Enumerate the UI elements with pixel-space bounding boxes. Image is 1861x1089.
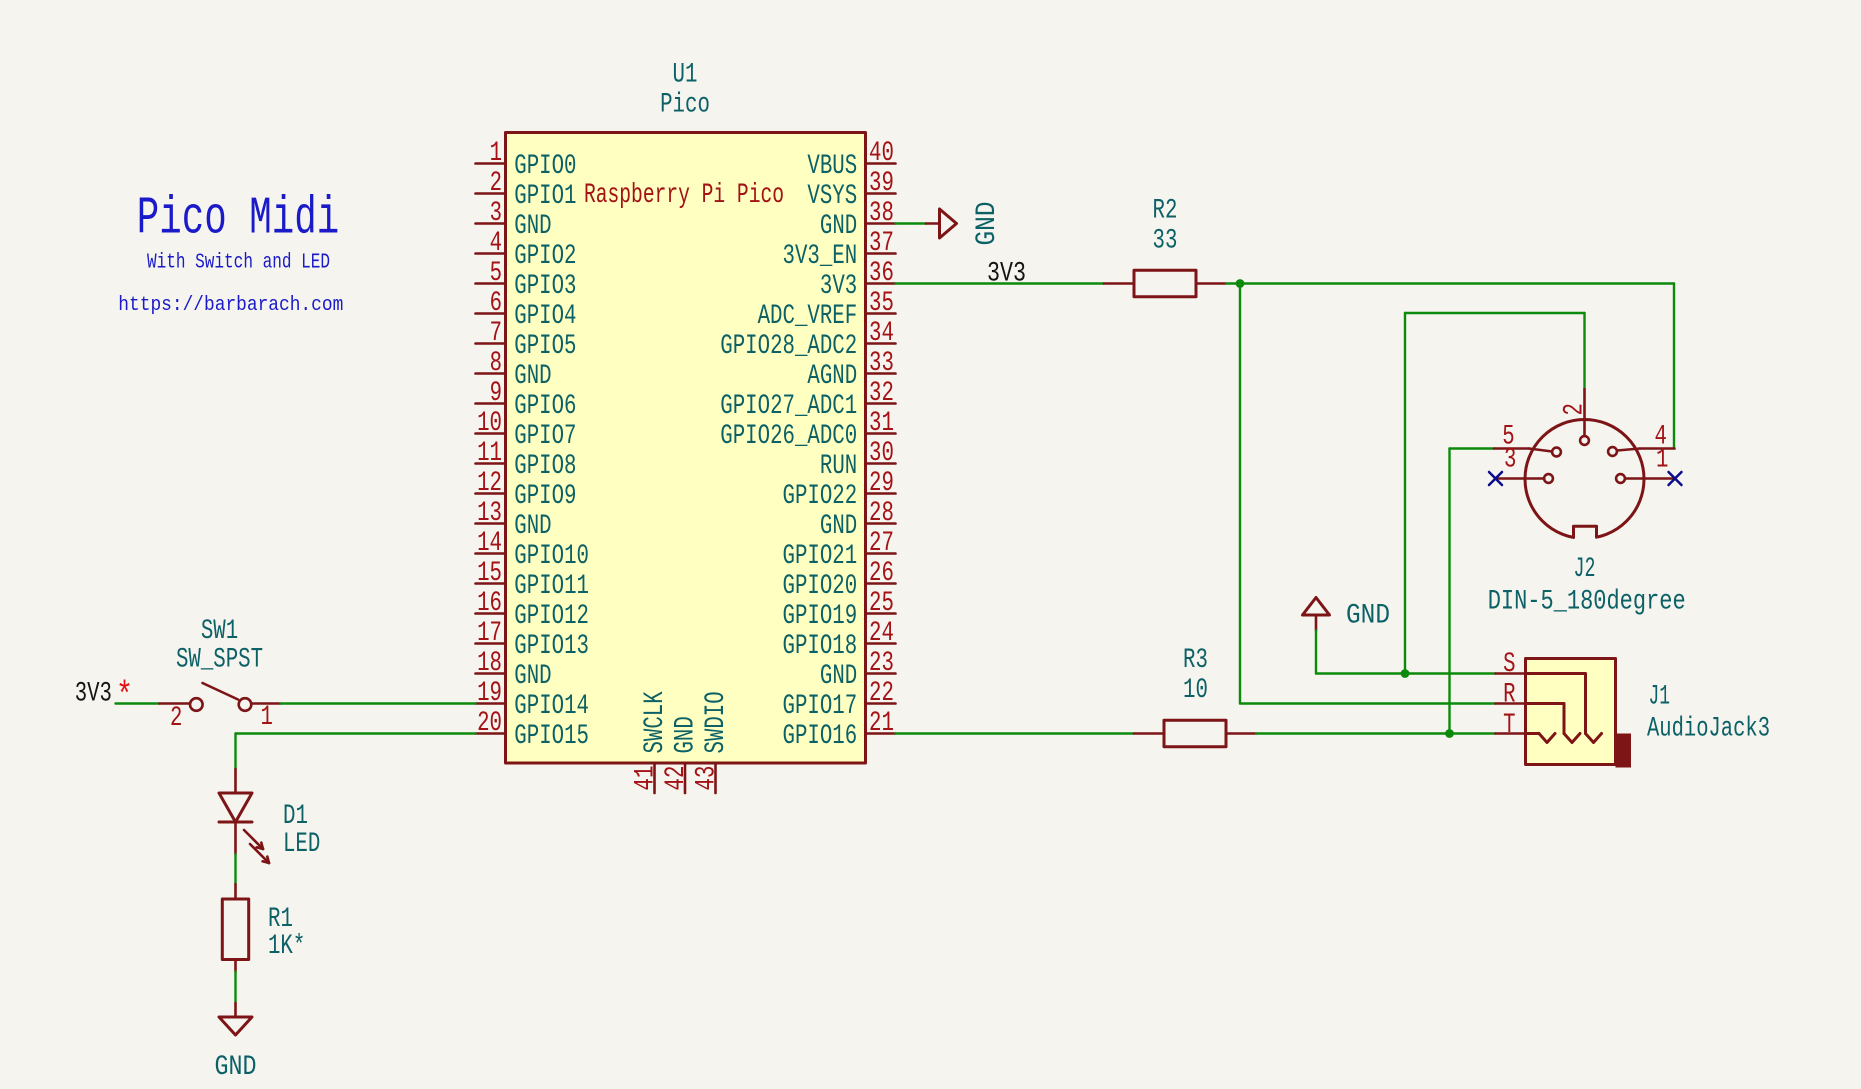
U1 pin 32 GPIO27_ADC1 (right) <box>720 378 895 422</box>
svg-text:J2: J2 <box>1574 554 1596 585</box>
svg-text:3: 3 <box>490 198 502 229</box>
svg-text:2: 2 <box>170 703 182 734</box>
svg-text:ADC_VREF: ADC_VREF <box>758 301 858 332</box>
wire LED to R1 <box>234 854 236 884</box>
svg-text:GND: GND <box>820 661 857 692</box>
svg-text:34: 34 <box>869 318 894 349</box>
svg-text:U1: U1 <box>673 60 698 91</box>
wire 3V3 label to SW1 pin2 <box>116 702 160 704</box>
svg-text:20: 20 <box>477 708 502 739</box>
junction at R2 output <box>1236 279 1245 288</box>
resistor R2 <box>1104 270 1226 296</box>
U1 pin 19 GPIO14 (left) <box>476 678 590 722</box>
wire pin38 to GND flag <box>896 222 927 224</box>
wire junction up to DIN pin5 <box>1450 449 1495 734</box>
svg-text:S: S <box>1503 649 1515 680</box>
svg-text:40: 40 <box>869 138 894 169</box>
svg-text:GND: GND <box>671 716 702 753</box>
svg-text:GPIO15: GPIO15 <box>514 721 589 752</box>
U1 pin 24 GPIO18 (right) <box>783 618 896 662</box>
svg-text:GPIO19: GPIO19 <box>783 601 858 632</box>
svg-text:D1: D1 <box>283 801 308 832</box>
SW1 value label SW_SPST <box>176 645 263 676</box>
R1 reference label <box>268 904 293 935</box>
U1 pin 26 GPIO20 (right) <box>783 558 896 602</box>
svg-text:With Switch and LED: With Switch and LED <box>147 251 330 275</box>
svg-text:GPIO27_ADC1: GPIO27_ADC1 <box>720 391 857 422</box>
svg-text:GPIO8: GPIO8 <box>514 451 576 482</box>
connector J1 AudioJack3 body <box>1526 659 1632 768</box>
svg-text:Raspberry Pi Pico: Raspberry Pi Pico <box>584 180 784 211</box>
svg-text:LED: LED <box>283 829 320 860</box>
svg-text:GPIO21: GPIO21 <box>783 541 858 572</box>
U1 pin 1 GPIO0 (left) <box>476 138 577 182</box>
SW1 pin number 2 <box>170 703 182 734</box>
wire pin36 3V3 to R2 <box>896 282 1105 284</box>
U1 pin 23 GND (right) <box>820 648 896 692</box>
U1 pin 16 GPIO12 (left) <box>476 588 590 632</box>
R2 value label 33 <box>1153 226 1178 257</box>
LED D1 <box>219 769 269 863</box>
U1 pin 40 VBUS (right) <box>807 138 895 182</box>
U1 pin 4 GPIO2 (left) <box>476 228 577 272</box>
svg-text:AGND: AGND <box>807 361 857 392</box>
wire pin21 GPIO16 to R3 <box>896 732 1135 734</box>
svg-text:3V3: 3V3 <box>75 679 112 710</box>
net label 3V3 (left) <box>75 679 112 710</box>
U1 pin 29 GPIO22 (right) <box>783 468 896 512</box>
svg-text:1: 1 <box>490 138 502 169</box>
J1 pin S (sleeve) <box>1496 649 1602 743</box>
U1 pin 21 GPIO16 (right) <box>783 708 896 752</box>
svg-text:GPIO11: GPIO11 <box>514 571 589 602</box>
wire R2 to DIN pin4 corner <box>1226 284 1674 449</box>
U1 pin 9 GPIO6 (left) <box>476 378 577 422</box>
svg-text:GPIO9: GPIO9 <box>514 481 576 512</box>
svg-text:35: 35 <box>869 288 894 319</box>
junction at T wire <box>1445 729 1454 738</box>
svg-text:33: 33 <box>869 348 894 379</box>
svg-text:3V3: 3V3 <box>820 271 857 302</box>
J2 pin 5 (upper left) <box>1494 422 1561 457</box>
wire SW1 pin1 to U1 pin19 GPIO14 <box>281 702 476 704</box>
U1 pin 22 GPIO17 (right) <box>783 678 896 722</box>
svg-text:GPIO26_ADC0: GPIO26_ADC0 <box>720 421 857 452</box>
svg-text:32: 32 <box>869 378 894 409</box>
svg-text:R2: R2 <box>1153 196 1178 227</box>
svg-text:25: 25 <box>869 588 894 619</box>
wire GND symbol to jack S pin <box>1316 631 1496 674</box>
svg-text:RUN: RUN <box>820 451 857 482</box>
svg-text:SWDIO: SWDIO <box>701 691 732 753</box>
SW1 pin number 1 <box>261 702 273 733</box>
J1 pin T (tip) <box>1496 710 1556 743</box>
U1 pin 38 GND (right) <box>820 198 896 242</box>
svg-text:GND: GND <box>514 661 551 692</box>
svg-text:15: 15 <box>477 558 502 589</box>
svg-text:33: 33 <box>1153 226 1178 257</box>
svg-text:GND: GND <box>972 202 1003 246</box>
svg-text:2: 2 <box>490 168 502 199</box>
svg-text:13: 13 <box>477 498 502 529</box>
svg-text:GPIO18: GPIO18 <box>783 631 858 662</box>
svg-text:31: 31 <box>869 408 894 439</box>
note text "https://barbarach.com" <box>118 294 343 317</box>
svg-text:VSYS: VSYS <box>807 181 857 212</box>
svg-text:22: 22 <box>869 678 894 709</box>
J2 pin 3 (left) with no-connect <box>1489 445 1553 486</box>
svg-text:T: T <box>1503 710 1515 741</box>
U1 pin 8 GND (left) <box>476 348 552 392</box>
resistor R3 <box>1134 720 1256 746</box>
U1 pin 30 RUN (right) <box>820 438 896 482</box>
SW1 reference label <box>201 616 238 647</box>
svg-text:GPIO22: GPIO22 <box>783 481 858 512</box>
svg-text:8: 8 <box>490 348 502 379</box>
svg-text:SWCLK: SWCLK <box>640 691 671 753</box>
J1 pin R (ring) <box>1496 680 1581 743</box>
svg-text:https://barbarach.com: https://barbarach.com <box>118 294 343 317</box>
svg-text:*: * <box>116 676 133 717</box>
svg-text:GND: GND <box>820 511 857 542</box>
svg-text:GPIO10: GPIO10 <box>514 541 589 572</box>
svg-text:GPIO16: GPIO16 <box>783 721 858 752</box>
power symbol GND (bottom) <box>219 1003 252 1035</box>
svg-text:GPIO17: GPIO17 <box>783 691 858 722</box>
U1 pin 42 GND (bottom) <box>661 716 702 793</box>
IC U1 reference label <box>673 60 698 91</box>
U1 pin 20 GPIO15 (left) <box>476 708 590 752</box>
U1 pin 17 GPIO13 (left) <box>476 618 590 662</box>
svg-text:2: 2 <box>1560 403 1591 415</box>
svg-text:39: 39 <box>869 168 894 199</box>
U1 pin 27 GPIO21 (right) <box>783 528 896 572</box>
power symbol GND (middle, up-pointing) <box>1303 598 1330 631</box>
U1 pin 7 GPIO5 (left) <box>476 318 577 362</box>
svg-text:GPIO2: GPIO2 <box>514 241 576 272</box>
svg-text:3V3_EN: 3V3_EN <box>783 241 858 272</box>
svg-text:4: 4 <box>490 228 502 259</box>
U1 pin 12 GPIO9 (left) <box>476 468 577 512</box>
J2 pin 4 (upper right) <box>1608 422 1674 456</box>
svg-text:VBUS: VBUS <box>807 151 857 182</box>
IC U1 value label "Pico" <box>660 90 710 121</box>
U1 pin 25 GPIO19 (right) <box>783 588 896 632</box>
title text "Pico Midi" <box>137 189 339 249</box>
svg-text:23: 23 <box>869 648 894 679</box>
D1 value label LED <box>283 829 320 860</box>
ERC marker asterisk <box>116 676 133 717</box>
svg-text:43: 43 <box>692 766 723 791</box>
svg-text:GND: GND <box>820 211 857 242</box>
J2 reference label <box>1574 554 1596 585</box>
U1 pin 5 GPIO3 (left) <box>476 258 577 302</box>
svg-text:11: 11 <box>477 438 502 469</box>
svg-text:3: 3 <box>1504 445 1516 476</box>
svg-text:10: 10 <box>477 408 502 439</box>
U1 pin 15 GPIO11 (left) <box>476 558 590 602</box>
U1 pin 2 GPIO1 (left) <box>476 168 577 212</box>
svg-text:41: 41 <box>631 766 662 791</box>
svg-text:GND: GND <box>514 511 551 542</box>
svg-text:AudioJack3: AudioJack3 <box>1647 714 1770 745</box>
wire R1 to GND <box>234 972 236 1004</box>
svg-text:1K*: 1K* <box>268 931 305 962</box>
svg-text:36: 36 <box>869 258 894 289</box>
R2 reference label <box>1153 196 1178 227</box>
label GND (middle) <box>1346 601 1390 632</box>
J1 reference label <box>1649 682 1671 713</box>
connector J2 DIN-5 body circle <box>1525 420 1644 543</box>
svg-text:DIN-5_180degree: DIN-5_180degree <box>1488 587 1686 618</box>
svg-text:GPIO1: GPIO1 <box>514 181 576 212</box>
svg-text:18: 18 <box>477 648 502 679</box>
wire junction up and over to DIN pin2 <box>1405 313 1585 674</box>
svg-text:14: 14 <box>477 528 502 559</box>
svg-text:GND: GND <box>514 361 551 392</box>
svg-text:3V3: 3V3 <box>987 259 1026 290</box>
U1 pin 37 3V3_EN (right) <box>783 228 896 272</box>
U1 pin 14 GPIO10 (left) <box>476 528 590 572</box>
svg-text:37: 37 <box>869 228 894 259</box>
svg-text:12: 12 <box>477 468 502 499</box>
svg-text:26: 26 <box>869 558 894 589</box>
subtitle text "With Switch and LED" <box>147 251 330 275</box>
svg-text:29: 29 <box>869 468 894 499</box>
svg-text:GPIO6: GPIO6 <box>514 391 576 422</box>
svg-text:SW1: SW1 <box>201 616 238 647</box>
R1 value label 1K* <box>268 931 305 962</box>
svg-text:6: 6 <box>490 288 502 319</box>
U1 pin 43 SWDIO (bottom) <box>692 691 733 793</box>
svg-text:16: 16 <box>477 588 502 619</box>
U1 pin 3 GND (left) <box>476 198 552 242</box>
svg-text:27: 27 <box>869 528 894 559</box>
U1 pin 11 GPIO8 (left) <box>476 438 577 482</box>
power flag GND (pin 38) <box>926 209 957 238</box>
svg-text:SW_SPST: SW_SPST <box>176 645 263 676</box>
net label 3V3 (on wire) <box>987 259 1026 290</box>
svg-text:24: 24 <box>869 618 894 649</box>
U1 pin 31 GPIO26_ADC0 (right) <box>720 408 895 452</box>
svg-text:Pico: Pico <box>660 90 710 121</box>
U1 pin 41 SWCLK (bottom) <box>631 691 672 793</box>
U1 pin 35 ADC_VREF (right) <box>758 288 896 332</box>
svg-text:GPIO13: GPIO13 <box>514 631 589 662</box>
resistor R1 <box>222 884 248 972</box>
svg-text:42: 42 <box>661 766 692 791</box>
label GND (rotated, at flag) <box>972 202 1003 246</box>
J2 pin 2 (top) <box>1560 389 1591 445</box>
J2 value label DIN-5_180degree <box>1488 587 1686 618</box>
svg-text:GND: GND <box>1346 601 1390 632</box>
svg-text:GPIO14: GPIO14 <box>514 691 589 722</box>
wire R3 to jack T pin <box>1256 732 1496 734</box>
svg-text:R: R <box>1503 680 1516 711</box>
svg-text:GPIO20: GPIO20 <box>783 571 858 602</box>
svg-text:GPIO7: GPIO7 <box>514 421 576 452</box>
R3 value label 10 <box>1183 675 1208 706</box>
svg-text:GPIO4: GPIO4 <box>514 301 576 332</box>
op-amp U1 body (Raspberry Pi Pico rectangle) <box>506 133 866 764</box>
svg-text:GPIO3: GPIO3 <box>514 271 576 302</box>
svg-text:9: 9 <box>490 378 502 409</box>
U1 pin 39 VSYS (right) <box>807 168 895 212</box>
svg-text:1: 1 <box>1656 445 1668 476</box>
svg-text:GPIO5: GPIO5 <box>514 331 576 362</box>
U1 pin 13 GND (left) <box>476 498 552 542</box>
U1 pin 6 GPIO4 (left) <box>476 288 577 332</box>
switch SW1 SW_SPST <box>160 683 281 711</box>
svg-text:28: 28 <box>869 498 894 529</box>
U1 pin 33 AGND (right) <box>807 348 895 392</box>
svg-text:Pico Midi: Pico Midi <box>137 189 339 249</box>
U1 pin 34 GPIO28_ADC2 (right) <box>720 318 895 362</box>
junction on S wire <box>1401 669 1410 678</box>
U1 pin 18 GND (left) <box>476 648 552 692</box>
svg-text:5: 5 <box>490 258 502 289</box>
svg-text:R3: R3 <box>1183 645 1208 676</box>
svg-text:19: 19 <box>477 678 502 709</box>
svg-text:GPIO12: GPIO12 <box>514 601 589 632</box>
svg-text:17: 17 <box>477 618 502 649</box>
svg-text:38: 38 <box>869 198 894 229</box>
svg-text:GND: GND <box>215 1052 257 1083</box>
svg-text:GPIO0: GPIO0 <box>514 151 576 182</box>
D1 reference label <box>283 801 308 832</box>
svg-text:21: 21 <box>869 708 894 739</box>
J2 pin 1 (right) with no-connect <box>1616 445 1681 486</box>
text "Raspberry Pi Pico" inside U1 <box>584 180 784 211</box>
R3 reference label <box>1183 645 1208 676</box>
svg-text:J1: J1 <box>1649 682 1671 713</box>
svg-text:GND: GND <box>514 211 551 242</box>
svg-text:30: 30 <box>869 438 894 469</box>
svg-text:GPIO28_ADC2: GPIO28_ADC2 <box>720 331 857 362</box>
wire U1 pin20 GPIO15 to LED <box>236 734 476 770</box>
U1 pin 36 3V3 (right) <box>820 258 896 302</box>
U1 pin 28 GND (right) <box>820 498 896 542</box>
svg-text:7: 7 <box>490 318 502 349</box>
svg-text:10: 10 <box>1183 675 1208 706</box>
U1 pin 10 GPIO7 (left) <box>476 408 577 452</box>
J1 value label AudioJack3 <box>1647 714 1770 745</box>
label GND (bottom) <box>215 1052 257 1083</box>
svg-text:1: 1 <box>261 702 273 733</box>
wire junction down to jack R pin <box>1240 284 1496 704</box>
